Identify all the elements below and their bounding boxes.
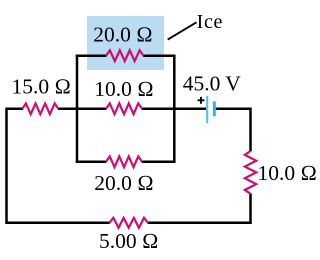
resistor 10.0 ohm (middle branch) [106, 103, 142, 114]
resistor 10.0 ohm (right vertical) [245, 151, 256, 194]
svg-text:5.00 Ω: 5.00 Ω [99, 229, 159, 253]
battery short plate (-) [213, 101, 216, 116]
svg-text:20.0 Ω: 20.0 Ω [94, 171, 154, 195]
wire: inner box left vertical [76, 55, 79, 163]
svg-text:10.0 Ω: 10.0 Ω [258, 161, 318, 185]
svg-text:Ice: Ice [197, 11, 224, 33]
svg-text:20.0 Ω: 20.0 Ω [93, 23, 153, 47]
resistor 20.0 ohm (top branch, iced) [106, 50, 144, 61]
resistor 20.0 ohm (bottom branch) [106, 156, 142, 167]
wire: battery right lead + top-right corner down to 10ohm [216, 109, 251, 152]
wire: middle branch left stub [76, 108, 107, 111]
battery long plate (+) [206, 96, 208, 124]
wire: bottom branch right stub [142, 161, 176, 164]
wire: battery left lead [173, 108, 206, 111]
wire: between 15ohm and inner box left [58, 108, 78, 111]
ice highlight rectangle [87, 16, 164, 70]
resistor 15.0 ohm (left horizontal) [22, 103, 58, 114]
wire: inner box right vertical [173, 55, 176, 163]
battery plus sign [198, 97, 205, 104]
wire: main wire left end + left vertical + bottom run to 5ohm [7, 109, 110, 223]
svg-text:10.0 Ω: 10.0 Ω [94, 77, 154, 101]
svg-text:15.0 Ω: 15.0 Ω [12, 75, 72, 99]
resistor 5.00 ohm (bottom wire) [109, 218, 148, 228]
svg-text:45.0 V: 45.0 V [183, 72, 242, 96]
wire: middle branch right stub [142, 108, 176, 111]
wire: top branch right stub [143, 54, 175, 57]
wire: below 10ohm + bottom-right corner [148, 194, 251, 223]
wire: bottom branch left stub [76, 161, 107, 164]
leader line to Ice [168, 22, 197, 39]
wire: top branch left stub [76, 54, 107, 57]
